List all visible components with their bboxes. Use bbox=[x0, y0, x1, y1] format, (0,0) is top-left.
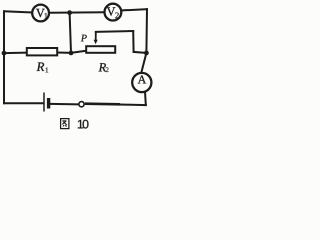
rheostat R2 bbox=[86, 46, 115, 53]
battery bbox=[44, 93, 49, 112]
caption text 10 bbox=[78, 120, 89, 129]
switch S bbox=[79, 102, 120, 107]
wire middle vertical (node to R1-R2 junction) bbox=[70, 13, 71, 53]
wire battery to switch bbox=[50, 103, 78, 106]
slider arrow P bbox=[94, 32, 98, 44]
wire V1 to V2 horizontal bbox=[50, 11, 105, 14]
wire slider tap to right node bbox=[134, 52, 147, 53]
wire middle node to R2 bbox=[71, 51, 86, 53]
wire top-left horizontal bbox=[4, 11, 32, 12]
wire bottom-right horizontal bbox=[120, 104, 146, 107]
label R1 bbox=[37, 63, 49, 73]
wire slider tap right vertical bbox=[132, 31, 134, 52]
node left bbox=[2, 51, 7, 56]
label R2 bbox=[99, 63, 109, 72]
wire ammeter bottom to corner bbox=[144, 93, 147, 105]
wire node to ammeter top bbox=[142, 53, 147, 72]
wire bottom-left horizontal (corner to battery) bbox=[4, 102, 43, 104]
wire right vertical bbox=[145, 9, 148, 53]
wire slider tap horizontal bbox=[96, 30, 133, 33]
resistor R1 bbox=[27, 48, 57, 55]
wire left vertical bbox=[3, 11, 5, 103]
scan grain overlay bbox=[0, 0, 156, 133]
voltmeter U:V1 bbox=[32, 5, 49, 22]
node middle (R1-R2 junction) bbox=[69, 51, 74, 56]
voltmeter U:V2 bbox=[105, 4, 122, 21]
caption glyph 图 bbox=[61, 119, 69, 129]
wire V2 to top-right corner bbox=[122, 9, 147, 10]
label P bbox=[81, 35, 87, 42]
wire R1 to middle node bbox=[57, 52, 71, 54]
ammeter A bbox=[132, 73, 151, 92]
node top middle bbox=[67, 10, 72, 15]
node right bbox=[144, 51, 149, 56]
wire left node to R1 bbox=[4, 52, 27, 54]
